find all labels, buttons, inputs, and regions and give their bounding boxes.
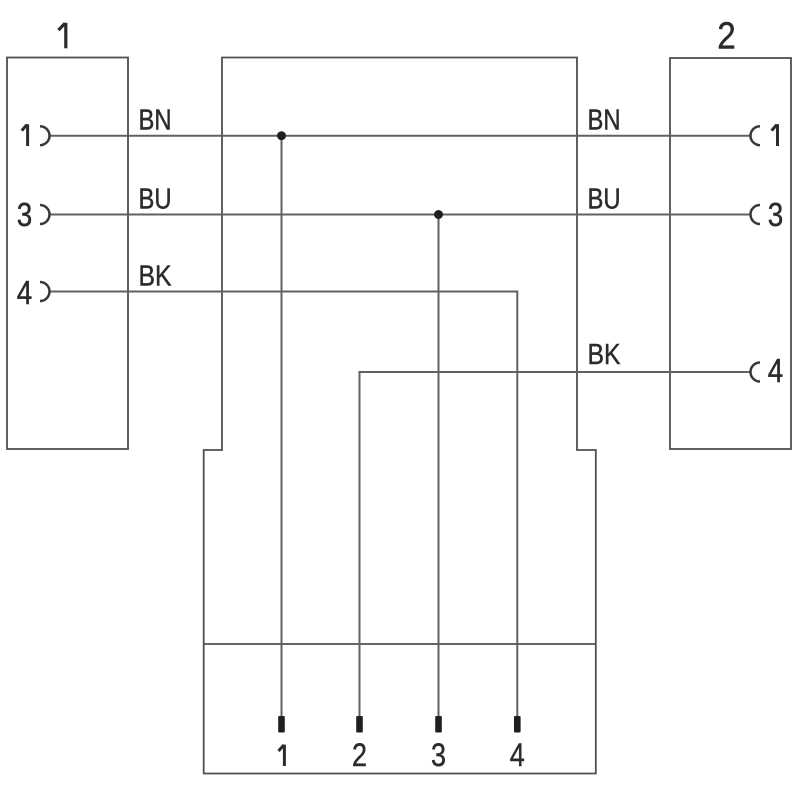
- distributor body: [204, 58, 596, 774]
- terminal 3: [435, 716, 442, 733]
- wire BK right horizontal and drop to terminal 2: [360, 372, 751, 717]
- svg-text:BN: BN: [588, 105, 621, 137]
- pin 1 right contact arc: [751, 126, 761, 145]
- svg-text:BU: BU: [139, 184, 172, 216]
- svg-text:2: 2: [717, 16, 736, 58]
- svg-text:2: 2: [352, 737, 367, 773]
- svg-text:BK: BK: [139, 261, 173, 293]
- svg-text:4: 4: [768, 352, 784, 389]
- wire BN horizontal: [50, 135, 751, 137]
- pin 1 right label: [772, 124, 778, 146]
- pin 1 left contact arc: [40, 126, 50, 145]
- svg-text:BN: BN: [139, 105, 172, 137]
- wire BU vertical drop to terminal 3: [438, 215, 440, 717]
- wire BK left horizontal and drop to terminal 4: [50, 292, 518, 717]
- terminal 1 label: [279, 745, 285, 766]
- wire BN vertical drop to terminal 1: [281, 136, 283, 717]
- connector 1 label: [58, 23, 65, 49]
- pin 3 left contact arc: [40, 205, 50, 224]
- pin 4 right contact arc: [751, 363, 761, 382]
- svg-text:3: 3: [768, 196, 784, 233]
- pin 1 left label: [22, 124, 28, 146]
- terminal 2: [356, 716, 363, 733]
- connector 2 body: [670, 58, 791, 449]
- svg-text:4: 4: [510, 737, 525, 773]
- junction dot BN: [277, 131, 286, 140]
- svg-text:BK: BK: [588, 339, 622, 371]
- junction dot BU: [434, 210, 443, 219]
- terminal 4: [514, 716, 521, 733]
- distributor divider line: [204, 643, 596, 645]
- svg-text:4: 4: [17, 274, 33, 311]
- pin 4 left contact arc: [40, 282, 50, 301]
- terminal 1: [278, 716, 285, 733]
- connector 1 body: [7, 58, 128, 450]
- svg-text:3: 3: [17, 196, 33, 233]
- pin 3 right contact arc: [751, 205, 761, 224]
- svg-text:3: 3: [431, 737, 446, 773]
- wire BU horizontal: [50, 214, 751, 216]
- svg-text:BU: BU: [588, 184, 621, 216]
